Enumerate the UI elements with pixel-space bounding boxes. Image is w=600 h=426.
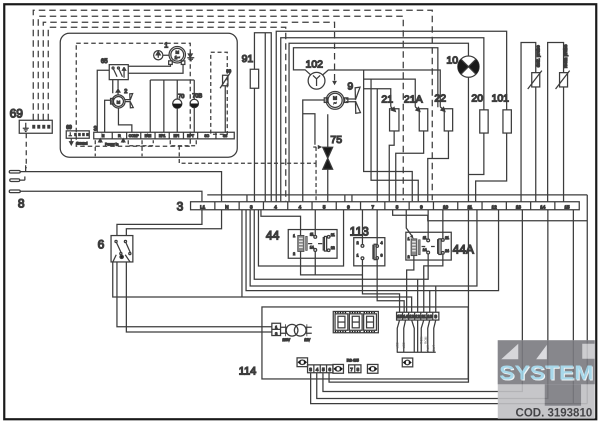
svg-text:230V: 230V xyxy=(283,338,291,342)
pressure switch 70B xyxy=(190,93,202,107)
fan blade symbol xyxy=(346,99,356,102)
wire 102 right lead to heater 22 top xyxy=(322,70,440,107)
heater 21 xyxy=(381,93,399,131)
transformer xyxy=(281,324,312,342)
board icon 1 xyxy=(297,358,308,367)
svg-text:8: 8 xyxy=(396,204,399,209)
wire contactor 6 to board terminal 2 xyxy=(126,262,272,332)
wire bus riser to terminal 3 xyxy=(241,210,243,297)
svg-text:4: 4 xyxy=(381,241,383,245)
svg-text:22: 22 xyxy=(331,246,335,250)
svg-text:LED: LED xyxy=(396,341,400,348)
RS 485 terminal 7-8 xyxy=(347,358,361,373)
heater 22 xyxy=(434,92,452,131)
wire board 5 to terminal 13 xyxy=(323,210,522,392)
wire terminal 3 to terminal 11 lower bus xyxy=(250,210,477,286)
wire contactor 6 to board terminal 1 xyxy=(117,262,272,327)
dashed drop to terminal 5 with arrow to valve 75 xyxy=(315,163,317,201)
wire step to valve 75 actuator xyxy=(303,114,315,145)
svg-text:91: 91 xyxy=(242,53,254,65)
svg-text:2: 2 xyxy=(357,241,359,245)
board icon 4 xyxy=(402,358,413,367)
svg-text:4: 4 xyxy=(299,204,302,209)
control board 114 xyxy=(239,307,469,379)
svg-text:2: 2 xyxy=(408,255,410,259)
svg-text:RS 485: RS 485 xyxy=(347,358,359,362)
wire 8 stub xyxy=(20,179,25,181)
svg-text:14: 14 xyxy=(423,248,427,252)
wire board 6 to terminal 11 xyxy=(329,210,468,382)
4-way valve 10 xyxy=(446,54,479,77)
svg-text:11: 11 xyxy=(423,236,427,240)
compressor 2 xyxy=(111,89,134,108)
svg-text:21: 21 xyxy=(381,93,393,105)
svg-text:ROM: ROM xyxy=(424,336,428,344)
wire 65 to N terminal xyxy=(97,70,109,132)
svg-text:6: 6 xyxy=(98,237,105,251)
svg-text:3: 3 xyxy=(309,367,312,372)
svg-text:3: 3 xyxy=(250,204,253,209)
fan motor 9 xyxy=(324,80,353,109)
wire terminal L1 to contactor 6 xyxy=(117,210,202,236)
svg-text:M: M xyxy=(176,49,179,54)
svg-text:FAN: FAN xyxy=(145,134,152,138)
flow indicator at motor 1 xyxy=(154,51,169,60)
svg-text:2: 2 xyxy=(124,89,127,95)
wire terminal 8 to right riser xyxy=(393,210,588,221)
connector 69 ground (inside unit) xyxy=(66,125,89,146)
wire branch to terminal 8 xyxy=(376,89,378,202)
relay 44A xyxy=(406,232,474,260)
wire terminal 7 to relay 113 pin 4 xyxy=(376,210,378,245)
svg-text:13: 13 xyxy=(409,314,414,319)
power in arrows xyxy=(99,139,125,146)
svg-text:1: 1 xyxy=(164,42,168,49)
svg-text:room probe: room probe xyxy=(563,44,568,68)
svg-text:15: 15 xyxy=(397,314,402,319)
terminal strip 3 (main) xyxy=(177,199,580,213)
wire 91 bottom to terminal 3 xyxy=(253,88,255,201)
svg-text:24: 24 xyxy=(445,249,449,253)
wire terminal 4 to heater 101 xyxy=(276,31,506,201)
wire valve 10 to terminal 10 xyxy=(467,77,469,202)
wire terminal 7 to relay 113 pin 2 xyxy=(361,210,363,245)
svg-text:14: 14 xyxy=(310,245,314,249)
pressure switch 70 xyxy=(173,94,185,109)
svg-text:COMP: COMP xyxy=(129,134,140,138)
svg-text:21: 21 xyxy=(445,236,449,240)
wire terminal 4 to heater 20 xyxy=(281,38,484,202)
wire 101 bottom to terminal 12 xyxy=(476,133,507,202)
svg-text:N: N xyxy=(225,204,228,209)
wire bus drop to board connector 12 xyxy=(417,279,419,312)
component 91 xyxy=(242,53,259,89)
wire terminal N to contactor 6 xyxy=(126,210,221,236)
svg-text:21: 21 xyxy=(331,233,335,237)
dashed enclosure inside unit xyxy=(76,43,190,146)
svg-text:3: 3 xyxy=(177,199,184,213)
svg-text:44A: 44A xyxy=(453,242,474,256)
wire 20 bottom to terminal 11 xyxy=(468,133,483,175)
svg-text:70: 70 xyxy=(178,94,184,100)
svg-text:65: 65 xyxy=(101,59,108,65)
svg-text:75: 75 xyxy=(330,134,342,146)
svg-text:1: 1 xyxy=(293,234,295,238)
arrow on dashed control line to fan 9 xyxy=(332,81,337,85)
wire terminal 3 to terminal 6 lower bus xyxy=(258,210,343,266)
svg-text:AUX: AUX xyxy=(426,344,430,351)
solenoid valve 75 xyxy=(323,134,342,170)
svg-text:11: 11 xyxy=(467,204,472,209)
svg-text:HP1: HP1 xyxy=(159,134,166,138)
svg-text:4: 4 xyxy=(274,204,277,209)
svg-text:11: 11 xyxy=(421,314,426,319)
connector fan-out wires with labels xyxy=(396,320,437,352)
svg-text:HPI: HPI xyxy=(174,134,180,138)
wire 2 to N terminal xyxy=(105,100,111,132)
svg-text:12: 12 xyxy=(415,314,420,319)
wire to heater 21 top xyxy=(364,89,391,107)
svg-text:Ground: Ground xyxy=(76,141,87,145)
wire contactor 6 loop to terminal 3 xyxy=(113,262,412,312)
svg-text:102: 102 xyxy=(305,58,323,70)
ground symbol at motor 1 xyxy=(187,52,194,61)
svg-text:69: 69 xyxy=(66,125,72,131)
svg-text:HPT: HPT xyxy=(187,134,194,138)
wire 70 top xyxy=(176,80,178,99)
dashed brackets under strip xyxy=(95,140,316,163)
wire terminal 4 to valve 10 xyxy=(289,43,468,201)
wire relay 44A pin 24 to board connector xyxy=(424,254,443,312)
wire 70 to HPI xyxy=(176,108,178,132)
svg-text:N: N xyxy=(102,134,105,138)
main unit rounded box xyxy=(60,33,237,157)
wire valve 75 vertical to terminal 5 xyxy=(327,114,329,201)
wire 70B top xyxy=(193,80,195,99)
svg-text:ROM: ROM xyxy=(420,336,424,344)
svg-text:7: 7 xyxy=(371,204,374,209)
terminal group 8 xyxy=(9,165,25,210)
svg-text:SC: SC xyxy=(204,134,209,138)
svg-text:2: 2 xyxy=(293,252,295,256)
svg-text:1: 1 xyxy=(408,237,410,241)
wire 70B to HPT xyxy=(193,108,195,133)
relay 113 xyxy=(350,224,385,266)
svg-text:12: 12 xyxy=(492,204,498,209)
wire 21 bottom to terminal 8 xyxy=(389,131,394,201)
svg-text:14: 14 xyxy=(403,314,408,319)
svg-text:12V: 12V xyxy=(304,338,311,342)
board terminal 1-2 xyxy=(272,323,281,336)
svg-text:5: 5 xyxy=(322,367,325,372)
relay 65 xyxy=(101,59,128,80)
7-segment display xyxy=(333,311,378,332)
svg-text:Power in: Power in xyxy=(105,142,118,146)
svg-text:114: 114 xyxy=(239,365,257,377)
svg-text:86: 86 xyxy=(226,68,231,73)
svg-text:15: 15 xyxy=(564,204,570,209)
bus wire above terminal strip xyxy=(207,194,587,196)
svg-text:7: 7 xyxy=(350,367,353,372)
wire terminal 9 to relay 44A pin 11 xyxy=(427,210,429,239)
svg-text:6: 6 xyxy=(347,204,350,209)
svg-text:44: 44 xyxy=(266,228,280,242)
wire 8 to L1 terminal xyxy=(20,191,202,201)
svg-text:22: 22 xyxy=(434,92,446,104)
wire terminal 15 riser xyxy=(572,210,574,404)
wire 65 drop xyxy=(112,80,114,94)
svg-text:SYSTEM: SYSTEM xyxy=(499,362,593,384)
svg-text:defr. probe: defr. probe xyxy=(535,45,540,67)
wire 21A bottom to terminal 8 xyxy=(396,131,424,201)
watermark logo xyxy=(498,340,595,419)
board connector 15-9 xyxy=(397,312,439,320)
svg-text:~: ~ xyxy=(334,100,337,105)
svg-text:11: 11 xyxy=(310,232,314,236)
wire branch of 91 loop xyxy=(264,33,266,202)
stepped wire terminal 4 to relay 44 coil xyxy=(261,210,301,236)
wire bar over pressure switches xyxy=(150,80,194,132)
wire right edge riser xyxy=(586,195,588,404)
svg-text:R: R xyxy=(118,134,121,138)
svg-text:10: 10 xyxy=(427,314,432,319)
wire relay 113 pin 3 to board connector xyxy=(377,259,404,312)
svg-text:S3: S3 xyxy=(223,134,227,138)
wire board 4 to terminal 14 xyxy=(317,210,548,399)
svg-text:69: 69 xyxy=(10,106,24,120)
svg-text:14: 14 xyxy=(540,204,546,209)
wire terminal 3 to terminal 12 lower bus xyxy=(246,210,498,291)
svg-text:OUT: OUT xyxy=(432,345,436,352)
wire to compressor 102 and heater 22 xyxy=(293,48,437,108)
heater 101 xyxy=(491,92,511,133)
wire fan branch 2 to terminal 9 xyxy=(371,79,418,201)
wire 22 bottom to terminal 9 xyxy=(428,131,449,202)
contactor 6 xyxy=(98,236,133,262)
relay 44 xyxy=(266,228,337,258)
svg-text:20: 20 xyxy=(471,92,483,104)
svg-text:113: 113 xyxy=(350,224,369,238)
wire terminal 3 to relay 44A pin 14 xyxy=(254,210,428,280)
svg-text:101: 101 xyxy=(491,92,509,104)
wire fan branch to terminal 9 xyxy=(364,70,413,201)
room probe xyxy=(548,43,570,202)
svg-text:3: 3 xyxy=(381,253,383,257)
wire 2 to COMP terminal xyxy=(118,108,131,132)
wire bus drop to board connector 10 xyxy=(429,291,431,313)
wire relay 44 coil out xyxy=(301,251,363,274)
svg-text:5: 5 xyxy=(323,204,326,209)
wire terminal 9 diagonal to relay 44A coil xyxy=(406,210,412,236)
svg-text:1: 1 xyxy=(357,253,359,257)
board icon 3 xyxy=(367,364,378,373)
board terminal 3456 xyxy=(308,365,333,373)
thermistor 86 xyxy=(211,52,232,134)
svg-text:1~: 1~ xyxy=(175,55,181,60)
wire terminal 10 to relay 44A pin 21 xyxy=(442,210,444,239)
defrost probe xyxy=(521,43,542,202)
svg-text:21A: 21A xyxy=(404,93,423,105)
svg-text:10: 10 xyxy=(446,54,458,66)
wire bus drop to board connector 9 xyxy=(435,286,437,312)
bus drops to terminals 3 and 6 xyxy=(246,195,248,202)
compressor 102 xyxy=(305,58,324,89)
compressor motor 1 xyxy=(164,42,185,64)
svg-text:COD. 3193810: COD. 3193810 xyxy=(516,407,593,419)
svg-text:LED: LED xyxy=(402,341,406,348)
svg-text:9: 9 xyxy=(420,204,423,209)
svg-text:8: 8 xyxy=(18,196,25,210)
connector 69 (external) xyxy=(10,106,53,133)
svg-text:6: 6 xyxy=(329,367,332,372)
svg-text:9: 9 xyxy=(347,80,353,92)
svg-text:8: 8 xyxy=(357,367,360,372)
svg-text:10: 10 xyxy=(443,204,449,209)
wire 65 to compressor 2 arrow xyxy=(117,80,119,89)
wire motor1 to relay 65 xyxy=(128,64,170,66)
wire terminal 5 through relay 44 contact xyxy=(314,210,316,275)
wire relay 44A coil to board connector xyxy=(407,256,414,313)
wire motor1 to relay 65 lower xyxy=(128,64,183,73)
wire dashed ground drop from 69 xyxy=(25,133,27,168)
wire to heater 21A top xyxy=(364,79,416,107)
svg-text:M: M xyxy=(117,99,120,104)
svg-text:4: 4 xyxy=(316,367,319,372)
wire 9 left to terminal 4 xyxy=(303,100,325,201)
svg-text:13: 13 xyxy=(516,204,522,209)
terminal strip 3 (inside unit) xyxy=(94,126,235,139)
wire 8 to N terminal xyxy=(20,172,221,202)
heater 20 xyxy=(471,92,488,133)
wire dashed bundle from top edge to connector 69 xyxy=(33,10,432,201)
wire 91 top loop to terminal 4 xyxy=(254,33,271,202)
wire board 3 to terminal 15 xyxy=(311,373,588,404)
wire relay 113 pin 1 to board connector xyxy=(362,260,399,313)
svg-text:L1: L1 xyxy=(200,204,206,209)
heater 21A xyxy=(404,93,428,131)
svg-text:9: 9 xyxy=(435,314,438,319)
board icon 2 xyxy=(333,364,344,373)
